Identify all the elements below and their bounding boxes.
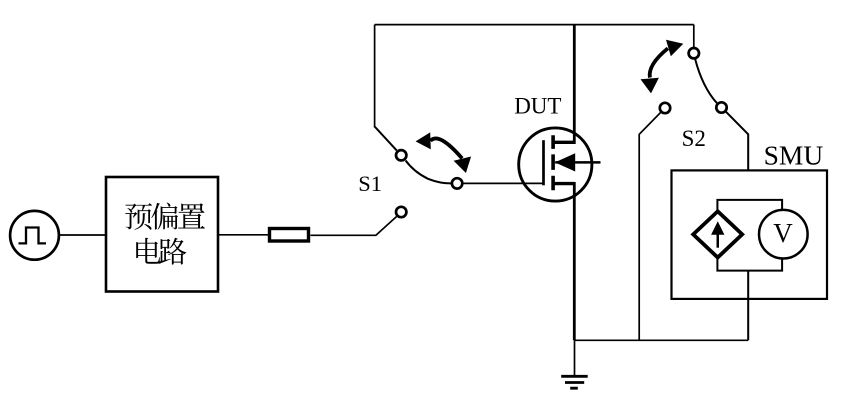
pulse source	[10, 211, 59, 260]
SMU output feed down	[747, 271, 749, 341]
switch S2 open contact C	[660, 103, 670, 113]
SMU box	[672, 170, 828, 299]
SMU internal top bracket	[717, 200, 782, 211]
svg-text:V: V	[773, 218, 793, 248]
switch S2 blade curve A to B	[695, 59, 717, 103]
switch S1 blade from rail to contacts	[375, 127, 451, 184]
label 电路 (line 2)	[136, 238, 186, 265]
wire resistor to S1 lever	[311, 234, 377, 236]
wire S1 contact B to gate	[463, 182, 544, 184]
label 预偏置 (line 1)	[125, 203, 205, 230]
DUT gate bar	[542, 140, 545, 185]
switch S1 lever (open pole)	[376, 217, 397, 236]
resistor R	[270, 229, 309, 242]
wire source down to bottom rail	[573, 182, 576, 340]
transistor DUT (MOSFET) body circle	[519, 128, 592, 201]
wire top-left vertical from rail	[374, 25, 376, 128]
switch S2 contact A	[689, 48, 699, 58]
switch S2 lever from contact C down	[639, 112, 661, 340]
voltmeter circle	[759, 210, 808, 259]
wire source to pre-bias box	[59, 234, 106, 236]
svg-text:DUT: DUT	[514, 93, 561, 118]
svg-text:SMU: SMU	[764, 140, 824, 171]
current source diamond	[693, 211, 742, 257]
switch S1 toggle arrow arc	[430, 138, 462, 158]
DUT body lead line	[555, 161, 600, 164]
wire box to resistor	[218, 234, 268, 236]
switch S1 toggle arrow	[416, 132, 472, 173]
DUT drain connection	[553, 141, 574, 144]
switch S2 blade B to SMU feed	[726, 111, 749, 170]
DUT drain lead up to rail	[573, 25, 576, 144]
DUT body arrow	[555, 153, 575, 171]
bottom rail wire	[575, 339, 749, 341]
switch S2 toggle arrow	[641, 40, 684, 94]
switch S1 contact B	[452, 178, 462, 188]
pulse waveform symbol	[19, 228, 47, 244]
switch S2 contact B	[716, 102, 726, 112]
current source arrow	[711, 221, 724, 248]
ground stem	[574, 340, 576, 375]
pre-bias circuit block	[106, 177, 218, 292]
switch S1 open contact circle	[396, 207, 406, 217]
switch S2 drop from rail	[693, 25, 695, 47]
switch S2 toggle arrow arc	[650, 48, 668, 77]
svg-text:S1: S1	[358, 171, 382, 196]
ground	[561, 376, 588, 388]
switch S1 contact A	[396, 150, 406, 160]
top rail wire	[375, 24, 694, 26]
svg-text:S2: S2	[682, 126, 706, 151]
SMU internal bottom bracket	[717, 258, 782, 270]
DUT source connection	[553, 182, 574, 185]
DUT channel segments	[551, 135, 555, 190]
